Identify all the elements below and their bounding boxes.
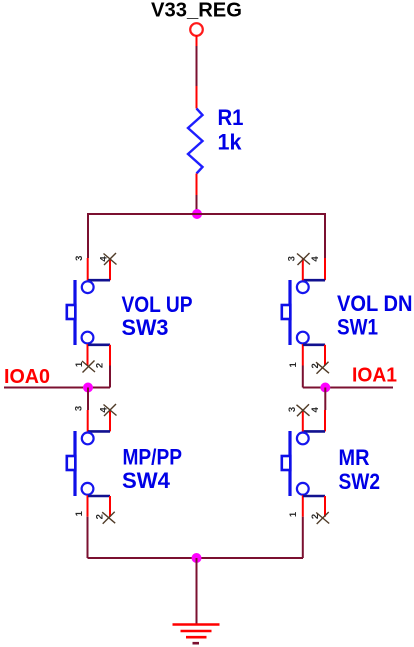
no-connect X on SW1 pin 3 (297, 253, 310, 265)
switch SW3 pin 1 (87, 344, 89, 366)
resistor R1 (188, 109, 203, 174)
switch SW2 pin 2 (303, 496, 325, 517)
resistor R1 pin 2 (196, 86, 198, 109)
switch SW2 pin 1 (302, 495, 304, 517)
junction node bottom bus / ground (192, 553, 202, 563)
switch SW4 pin 2 (88, 496, 110, 517)
switch SW4 body (push button) (67, 431, 94, 496)
switch SW3 pin 2 (88, 345, 110, 366)
junction node top bus / R1 (192, 209, 202, 219)
switch SW3 pin 4 (88, 259, 110, 281)
switch SW3 body (push button) (67, 280, 94, 345)
svg-text:4: 4 (99, 407, 110, 413)
svg-text:4: 4 (99, 256, 110, 262)
svg-text:IOA0: IOA0 (4, 366, 50, 388)
wire SW1 pin 1 down to IOA1 net (302, 366, 304, 388)
svg-text:1: 1 (288, 511, 299, 517)
wire IOA1 node down to SW2 pin 4 (324, 388, 326, 411)
no-connect X on SW4 pin 2 (102, 512, 115, 524)
switch SW4 pin 1 (87, 495, 89, 517)
svg-text:1: 1 (288, 361, 299, 367)
svg-text:MP/PP: MP/PP (123, 445, 183, 470)
svg-text:3: 3 (74, 406, 85, 411)
svg-text:VOL UP: VOL UP (122, 292, 193, 317)
svg-text:3: 3 (287, 256, 298, 261)
wire R1 to top bus (196, 195, 198, 214)
svg-text:2: 2 (95, 514, 106, 519)
no-connect X on SW1 pin 2 (316, 362, 329, 374)
svg-text:1k: 1k (218, 130, 243, 155)
svg-text:SW1: SW1 (337, 315, 378, 340)
wire top bus to SW1 pin 4 (324, 213, 326, 258)
svg-text:2: 2 (310, 514, 321, 519)
svg-text:SW4: SW4 (122, 468, 171, 493)
switch SW4 pin 4 (88, 410, 110, 432)
svg-text:SW3: SW3 (122, 315, 169, 340)
switch SW1 pin 1 (302, 344, 304, 366)
wire V33_REG terminal to R1 pin 2 (196, 36, 198, 86)
switch SW1 pin 2 (303, 345, 325, 366)
wire IOA0 node down to SW4 pin 3 (87, 388, 89, 411)
junction node IOA0 (83, 383, 93, 393)
svg-text:SW2: SW2 (339, 469, 381, 494)
switch SW1 pin 3 (302, 259, 304, 281)
switch SW2 pin 3 (302, 410, 304, 432)
no-connect X on SW3 pin 1 (82, 361, 95, 373)
svg-text:1: 1 (74, 361, 85, 367)
svg-text:2: 2 (95, 363, 106, 368)
svg-text:VOL DN: VOL DN (337, 291, 413, 316)
wire top bus to SW3 pin 3 (87, 213, 89, 258)
switch SW2 pin 4 (303, 410, 325, 431)
svg-text:3: 3 (287, 407, 298, 412)
switch SW3 pin 3 (87, 258, 89, 281)
wire SW4 pin 1 down to bottom bus (87, 517, 89, 558)
wire top bus horizontal (88, 213, 325, 215)
wire IOA0 horizontal (4, 387, 110, 389)
switch SW4 pin 3 (87, 410, 89, 432)
svg-text:1: 1 (74, 510, 85, 516)
svg-text:4: 4 (310, 256, 321, 262)
junction node IOA1 (320, 383, 330, 393)
svg-text:3: 3 (74, 256, 85, 261)
svg-text:R1: R1 (218, 105, 244, 130)
wire SW2 pin 1 down to bottom bus (302, 517, 304, 558)
wire bottom bus horizontal (88, 557, 304, 559)
svg-text:2: 2 (310, 363, 321, 368)
no-connect X on SW2 pin 2 (316, 512, 329, 524)
wire SW3 pin 2 down to IOA0 net (109, 366, 111, 388)
svg-text:4: 4 (310, 406, 321, 412)
wire bottom bus to ground (196, 558, 198, 624)
switch SW1 pin 4 (303, 258, 325, 280)
no-connect X on SW4 pin 4 (104, 404, 117, 416)
power port terminal circle V33_REG (190, 23, 203, 36)
no-connect X on SW3 pin 4 (104, 253, 117, 265)
switch SW2 body (push button) (282, 431, 309, 496)
svg-text:MR: MR (339, 445, 370, 470)
no-connect X on SW2 pin 3 (297, 404, 310, 416)
wire IOA1 horizontal (303, 387, 393, 389)
switch SW1 body (push button) (282, 280, 309, 345)
svg-text:IOA1: IOA1 (352, 365, 397, 387)
svg-text:V33_REG: V33_REG (151, 0, 242, 22)
ground (173, 625, 220, 644)
resistor R1 pin 1 (196, 174, 198, 196)
